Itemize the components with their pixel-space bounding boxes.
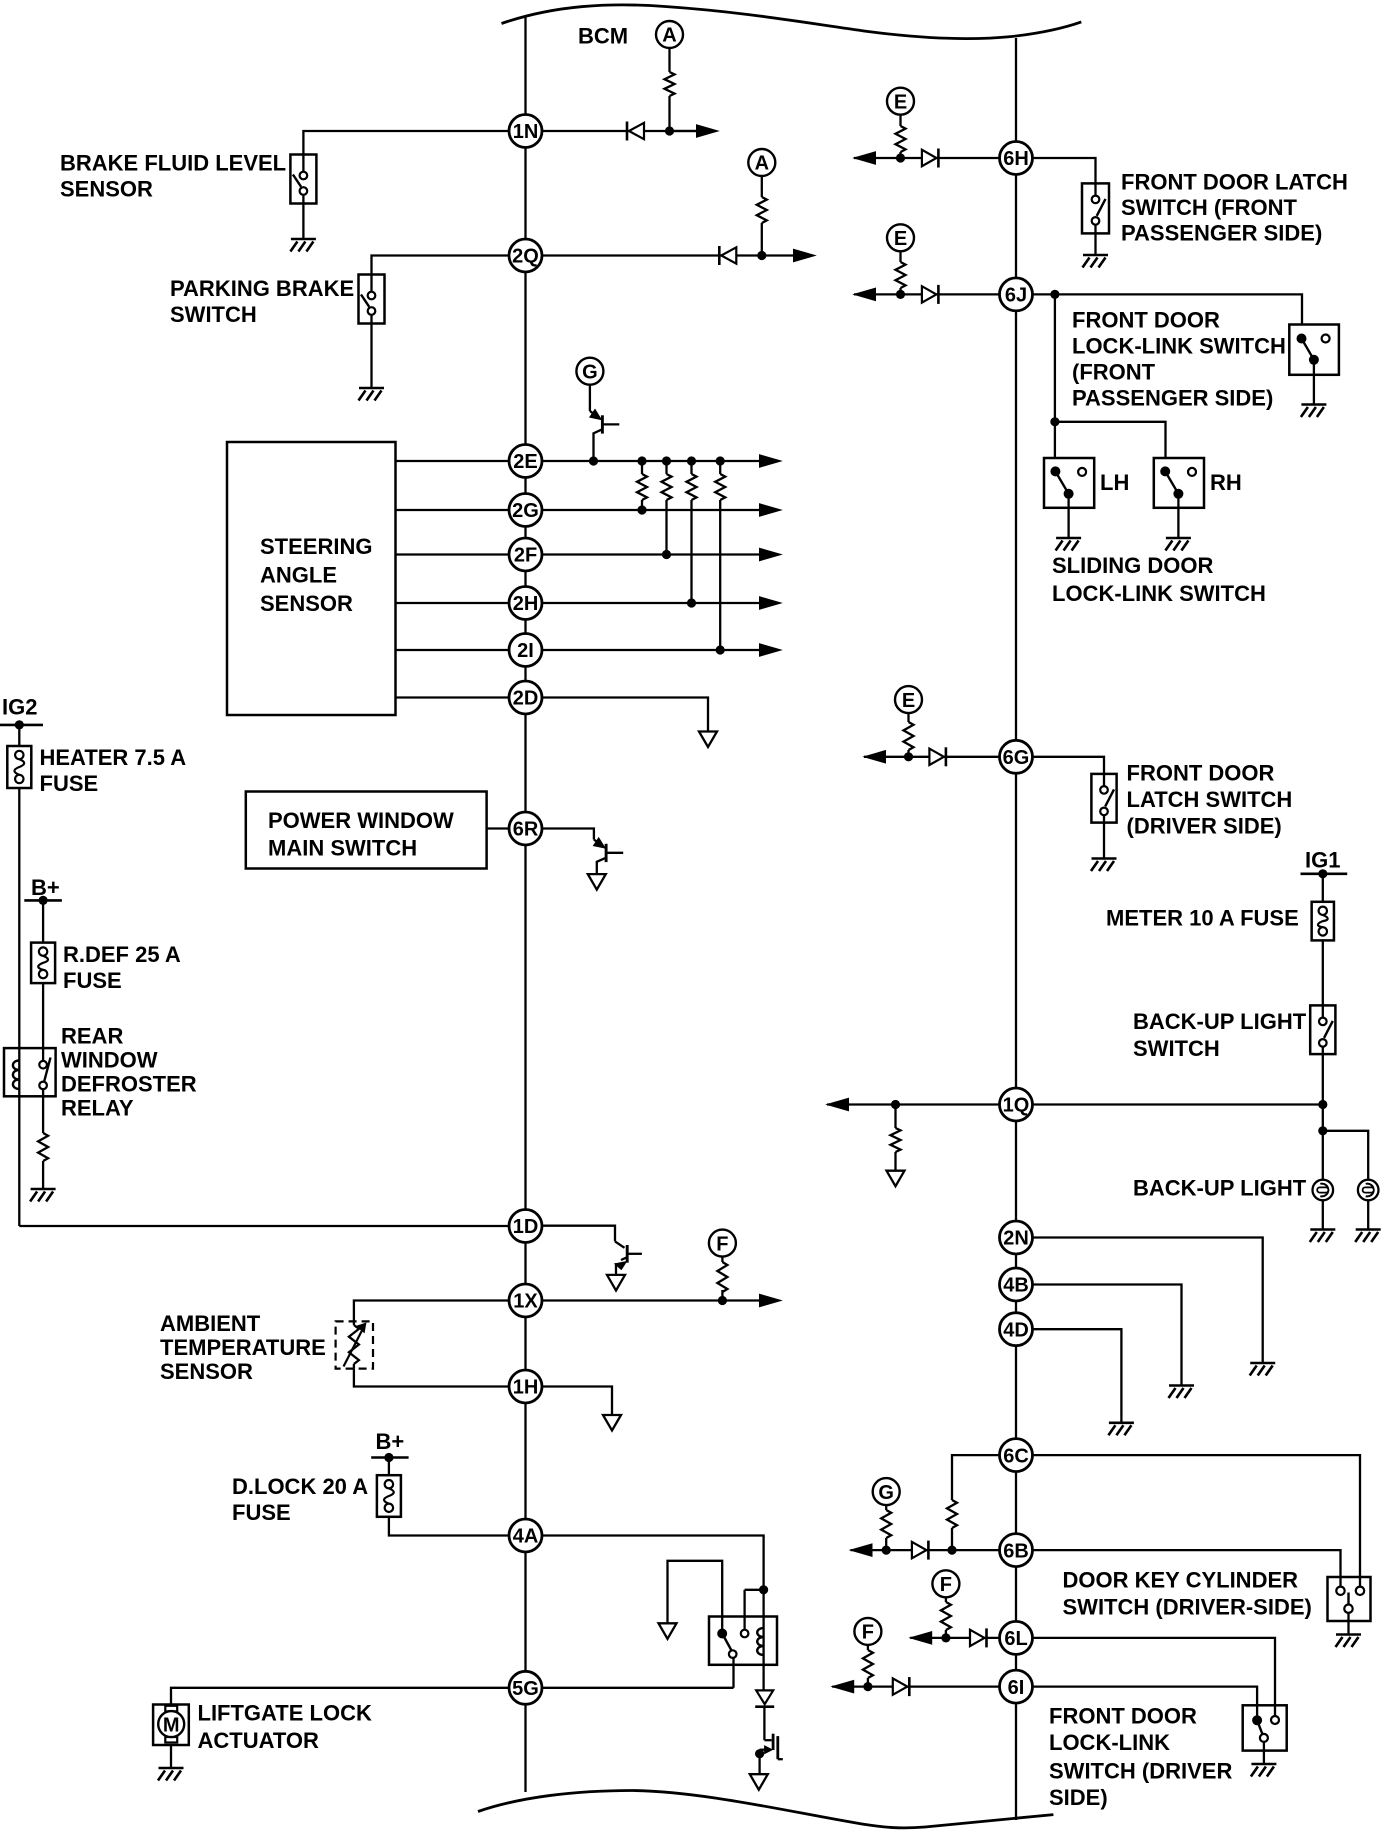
svg-text:REAR: REAR — [61, 1024, 123, 1049]
node on 6B row (6C resistor) — [947, 1546, 956, 1555]
node: Q-G collector on 2E row — [589, 456, 598, 465]
node: R4 top on 2E row — [716, 456, 725, 465]
steering angle sensor box — [227, 442, 396, 715]
svg-text:4B: 4B — [1003, 1275, 1029, 1297]
label FRONT DOOR LOCK-LINK SWITCH (FRONT PASSENGER SIDE) — [1072, 308, 1286, 411]
diode (flyback, pointing down) — [755, 1690, 774, 1706]
wire: 2N to ground — [1033, 1238, 1263, 1363]
relay switch lever (liftgate) — [717, 1629, 736, 1658]
BCM module boundary (bottom wavy line) — [478, 1791, 1053, 1828]
arrow output (6G row, pointing left) — [864, 751, 886, 763]
wire: relay switch to 5G row — [732, 1658, 734, 1688]
label FRONT DOOR LOCK-LINK SWITCH (DRIVER SIDE) — [1049, 1704, 1232, 1811]
connector E (circled, 6G) — [895, 686, 922, 713]
BCM connector pin 6R — [509, 812, 542, 845]
wire: long feed to 1D — [19, 1225, 509, 1227]
wire: sensor to 2E — [396, 460, 510, 462]
wire: E branch to 6J row — [899, 251, 901, 294]
wire: 6J to passenger lock-link switch — [1055, 294, 1302, 324]
fuse METER 10 A — [1312, 902, 1334, 941]
resistor (6C branch) — [947, 1500, 957, 1528]
wire: R.DEF fuse to defroster relay — [42, 983, 44, 1048]
wire: resistor to 6B row — [951, 1528, 953, 1550]
node: R2 top on 2E row — [662, 456, 671, 465]
transistor Q-FET (liftgate driver) — [755, 1734, 783, 1775]
svg-text:F: F — [862, 1622, 874, 1644]
wire: junction down to bulbs — [1322, 1105, 1324, 1180]
wire: sensor to 2I — [396, 649, 510, 651]
node on 6I row — [863, 1682, 872, 1691]
svg-text:FRONT DOOR: FRONT DOOR — [1072, 308, 1220, 333]
BCM connector pin 2H — [509, 587, 542, 620]
wire: E branch to 6G row — [907, 713, 909, 757]
BCM connector pin 6H — [1000, 142, 1033, 175]
transistor Q-G (output driver at 2E) — [590, 385, 620, 461]
svg-text:6I: 6I — [1008, 1677, 1025, 1699]
diode D-2Q (cathode left) — [719, 246, 736, 265]
label HEATER 7.5 A FUSE — [40, 745, 187, 796]
svg-text:B+: B+ — [31, 875, 60, 900]
ground (2N) — [1250, 1363, 1276, 1376]
svg-text:1X: 1X — [513, 1291, 538, 1313]
BCM connector pin 6C — [1000, 1439, 1033, 1472]
arrow output (2I row) — [760, 644, 782, 656]
BCM connector pin 6I — [1000, 1670, 1033, 1703]
svg-text:1H: 1H — [513, 1377, 539, 1399]
diode D-6J — [922, 285, 939, 304]
wire: 6J row right — [1033, 293, 1055, 295]
power terminal B+ (bar) — [24, 899, 62, 902]
wire: contact stub down — [743, 1590, 745, 1630]
svg-text:F: F — [940, 1574, 952, 1596]
node on IG1 bar — [1318, 869, 1327, 878]
connector F (circled, 6L) — [932, 1570, 959, 1597]
wire: A branch to 2Q row — [761, 176, 763, 256]
resistor R4 (steering ladder) — [715, 461, 725, 650]
svg-text:R.DEF 25 A: R.DEF 25 A — [63, 942, 181, 967]
svg-text:SWITCH (FRONT: SWITCH (FRONT — [1121, 195, 1298, 220]
svg-text:DOOR KEY CYLINDER: DOOR KEY CYLINDER — [1063, 1568, 1299, 1593]
svg-text:AMBIENT: AMBIENT — [160, 1311, 261, 1336]
svg-text:POWER WINDOW: POWER WINDOW — [268, 808, 454, 833]
node on 1X row (F branch) — [718, 1296, 727, 1305]
front door latch switch (driver side) — [1091, 774, 1116, 823]
liftgate relay box — [709, 1617, 777, 1665]
relay contact (normally-open terminal) — [741, 1630, 749, 1638]
wire: 6B row left — [851, 1549, 1000, 1551]
ground (front door latch switch passenger) — [1083, 255, 1109, 268]
resistor (A branch, 2Q) — [756, 197, 768, 223]
svg-text:DEFROSTER: DEFROSTER — [61, 1072, 197, 1097]
ground (LH switch) — [1056, 538, 1082, 551]
svg-text:G: G — [878, 1482, 894, 1504]
arrow output (2F row) — [760, 548, 782, 560]
svg-text:SENSOR: SENSOR — [160, 1359, 253, 1384]
wire: 6L right to driver lock-link switch — [1033, 1638, 1276, 1716]
label FRONT DOOR LATCH SWITCH (DRIVER SIDE) — [1127, 761, 1293, 839]
diode D-1N (cathode left) — [627, 122, 644, 141]
wire: actuator to ground — [170, 1745, 172, 1767]
fuse HEATER 7.5 A — [7, 746, 31, 788]
wire: 2E row — [542, 460, 760, 462]
arrow output (6J row, pointing left) — [854, 288, 876, 300]
node on IG2 bar — [15, 720, 24, 729]
fuse R.DEF 25 A — [31, 943, 55, 984]
power terminal B+ bar (D.LOCK) — [371, 1456, 408, 1459]
svg-text:SWITCH: SWITCH — [1133, 1036, 1220, 1061]
BCM connector pin 2I — [509, 634, 542, 667]
wire: sensor to 2F — [396, 553, 510, 555]
lamp back-up light (left bulb) — [1313, 1180, 1334, 1201]
wire: defroster switch to resistor — [42, 1096, 44, 1133]
ground (4D) — [1108, 1423, 1134, 1436]
svg-text:E: E — [902, 690, 915, 712]
ground (liftgate actuator) — [158, 1768, 184, 1781]
svg-text:IG2: IG2 — [2, 695, 37, 720]
wire: IG1 to meter fuse — [1322, 874, 1324, 902]
connector E (circled, 6J) — [887, 224, 914, 251]
BCM connector pin 2E — [509, 445, 542, 478]
wire: E branch to 6H row — [899, 115, 901, 158]
wire: latch switch to ground — [1094, 233, 1096, 254]
BCM connector pin 2N — [1000, 1221, 1033, 1254]
wire: 6I right to driver lock-link switch — [1033, 1687, 1258, 1721]
svg-text:WINDOW: WINDOW — [61, 1048, 158, 1073]
svg-text:2H: 2H — [513, 593, 539, 615]
node: bulb branch junction — [1318, 1126, 1327, 1135]
label STEERING ANGLE SENSOR — [260, 534, 372, 616]
ground (right bulb) — [1355, 1230, 1381, 1243]
arrow output (2E row) — [760, 455, 782, 467]
wire: 2Q row right segment — [542, 254, 794, 256]
wire: 6J row left (diode to bus) — [854, 293, 1000, 295]
diode D-6I — [893, 1677, 910, 1696]
wire: 2Q row to parking brake switch — [372, 256, 510, 275]
door key cylinder switch (driver-side) — [1328, 1577, 1371, 1634]
svg-text:B+: B+ — [376, 1429, 405, 1454]
node: LH/RH branch junction — [1050, 417, 1059, 426]
svg-text:SWITCH (DRIVER-SIDE): SWITCH (DRIVER-SIDE) — [1063, 1595, 1312, 1620]
svg-text:1D: 1D — [513, 1216, 539, 1238]
svg-text:HEATER 7.5 A: HEATER 7.5 A — [40, 745, 187, 770]
wire: 1N row to brake fluid sensor — [303, 131, 509, 155]
arrow output (6L row, pointing left) — [910, 1632, 932, 1644]
svg-text:LOCK-LINK SWITCH: LOCK-LINK SWITCH — [1072, 334, 1286, 359]
relay coil (defroster) — [13, 1048, 19, 1096]
power terminal IG1 (bar) — [1301, 872, 1348, 875]
wire: 6I row left — [832, 1685, 999, 1687]
wire: diode to FET — [763, 1707, 765, 1741]
svg-text:PARKING BRAKE: PARKING BRAKE — [170, 276, 354, 301]
svg-text:LH: LH — [1100, 470, 1129, 495]
svg-text:6L: 6L — [1004, 1628, 1027, 1650]
wire: 5G row — [542, 1687, 734, 1689]
wire: sensor to 1H — [354, 1369, 509, 1387]
connector G (circled) — [576, 358, 603, 385]
svg-text:E: E — [894, 91, 907, 113]
svg-text:E: E — [894, 228, 907, 250]
wire: 6C right to key cylinder switch — [1033, 1455, 1361, 1577]
svg-text:BACK-UP LIGHT: BACK-UP LIGHT — [1133, 1009, 1307, 1034]
svg-text:D.LOCK 20 A: D.LOCK 20 A — [232, 1474, 368, 1499]
wire: back-up light switch down to 1Q row — [1322, 1054, 1324, 1104]
BCM connector pin 1X — [509, 1284, 542, 1317]
node on 6B row (G branch) — [882, 1546, 891, 1555]
svg-text:BACK-UP LIGHT: BACK-UP LIGHT — [1133, 1176, 1307, 1201]
svg-text:2D: 2D — [513, 688, 539, 710]
wire: defroster coil down to 1D feed — [18, 1096, 20, 1226]
svg-text:5G: 5G — [512, 1678, 539, 1700]
connector F (circled, 6I) — [854, 1618, 881, 1645]
connector G (circled, 6B) — [873, 1478, 900, 1505]
ground (defroster) — [30, 1189, 55, 1202]
wire: 5G to liftgate actuator — [171, 1688, 509, 1705]
label BRAKE FLUID LEVEL SENSOR — [60, 151, 286, 202]
node: 1Q / back-up light junction — [1318, 1100, 1327, 1109]
connector F (circled, 1X) — [709, 1230, 736, 1257]
wire: BCM left bus (vertical) — [524, 17, 526, 1792]
svg-text:M: M — [163, 1714, 180, 1736]
svg-text:SENSOR: SENSOR — [60, 177, 153, 202]
BCM module boundary (top wavy line) — [502, 5, 1082, 39]
wire: LH switch to ground — [1067, 508, 1069, 537]
svg-text:ACTUATOR: ACTUATOR — [198, 1728, 320, 1753]
arrow output (2Q row) — [794, 249, 816, 261]
resistor (F branch, 6I) — [862, 1650, 874, 1678]
svg-text:STEERING: STEERING — [260, 534, 372, 559]
sliding door lock-link switch LH — [1044, 458, 1094, 508]
wire: sensor to 2H — [396, 602, 510, 604]
svg-text:ANGLE: ANGLE — [260, 563, 337, 588]
resistor (A branch, 1N) — [664, 72, 676, 96]
wire: 2G row — [542, 509, 760, 511]
wire: sensor to 2G — [396, 509, 510, 511]
resistor (E branch, 6J) — [895, 262, 907, 288]
wire: 1Q resistor branch — [894, 1105, 896, 1129]
wire: RH switch to ground — [1177, 508, 1179, 537]
back-up light switch — [1310, 1005, 1335, 1054]
arrow output (1Q row, pointing left) — [827, 1098, 849, 1110]
resistor R1 (steering ladder) — [637, 461, 647, 510]
svg-text:FRONT DOOR: FRONT DOOR — [1049, 1704, 1197, 1729]
resistor (E branch, 6G) — [903, 722, 915, 750]
label R.DEF 25 A FUSE — [63, 942, 181, 993]
label BACK-UP LIGHT SWITCH — [1133, 1009, 1307, 1061]
wire: branch to right bulb — [1323, 1131, 1368, 1180]
wire: resistor to ground arrow — [894, 1152, 896, 1171]
connector E (circled, 6H) — [887, 88, 914, 115]
svg-text:6B: 6B — [1003, 1540, 1029, 1562]
label D.LOCK 20 A FUSE — [232, 1474, 368, 1525]
arrow output (1N row) — [697, 125, 719, 137]
node on 6L row — [941, 1633, 950, 1642]
svg-text:2I: 2I — [517, 640, 534, 662]
BCM connector pin 4A — [509, 1519, 542, 1552]
svg-text:MAIN SWITCH: MAIN SWITCH — [268, 836, 417, 861]
svg-text:SIDE): SIDE) — [1049, 1785, 1108, 1810]
svg-text:PASSENGER SIDE): PASSENGER SIDE) — [1072, 386, 1273, 411]
svg-text:RELAY: RELAY — [61, 1096, 134, 1121]
svg-text:2E: 2E — [513, 451, 537, 473]
transistor Q-6R (input buffer) — [542, 829, 623, 875]
wire: 6G to driver latch switch — [1033, 757, 1105, 774]
svg-text:SLIDING DOOR: SLIDING DOOR — [1052, 553, 1213, 578]
sliding door lock-link switch RH — [1154, 458, 1204, 508]
wire: 6H to front door latch switch — [1033, 158, 1096, 183]
ground (driver lock-link) — [1251, 1764, 1277, 1777]
BCM connector pin 2G — [509, 494, 542, 527]
diode D-6B — [912, 1541, 929, 1560]
ground (4B) — [1169, 1386, 1195, 1399]
label LIFTGATE LOCK ACTUATOR — [198, 1701, 372, 1754]
wire: 6G row left (diode to bus) — [864, 756, 1000, 758]
svg-text:FRONT DOOR: FRONT DOOR — [1127, 761, 1275, 786]
svg-text:FUSE: FUSE — [63, 968, 122, 993]
svg-text:4D: 4D — [1003, 1319, 1029, 1341]
BCM connector pin 2D — [509, 681, 542, 714]
fuse D.LOCK 20 A — [377, 1475, 401, 1517]
svg-text:FUSE: FUSE — [40, 771, 99, 796]
parking brake switch — [359, 275, 385, 324]
arrow output (2G row) — [760, 504, 782, 516]
node: R1 top on 2E row — [637, 456, 646, 465]
resistor (E branch, 6H) — [895, 126, 907, 152]
label PARKING BRAKE SWITCH — [170, 276, 354, 327]
rear window defroster relay box — [4, 1048, 56, 1096]
wire: 1X to ambient temperature sensor — [354, 1301, 509, 1322]
svg-text:TEMPERATURE: TEMPERATURE — [160, 1335, 326, 1360]
wire: heater fuse down to defroster relay — [18, 788, 20, 1048]
ground (key cylinder switch) — [1336, 1635, 1362, 1648]
wire: 2F row — [542, 553, 760, 555]
svg-text:LOCK-LINK SWITCH: LOCK-LINK SWITCH — [1052, 581, 1266, 606]
wire: 6L row left — [910, 1637, 999, 1639]
svg-text:IG1: IG1 — [1305, 848, 1340, 873]
wire: G branch to 6B row — [885, 1505, 887, 1550]
svg-text:RH: RH — [1210, 470, 1242, 495]
arrow output (2H row) — [760, 597, 782, 609]
wire: relay contact feed — [745, 1589, 764, 1591]
svg-text:(DRIVER SIDE): (DRIVER SIDE) — [1127, 814, 1282, 839]
wire: branch to RH switch — [1055, 422, 1166, 458]
svg-text:BRAKE FLUID LEVEL: BRAKE FLUID LEVEL — [60, 151, 286, 176]
wire: 2D to ground arrow — [542, 698, 708, 732]
node on 6J row — [896, 290, 905, 299]
BCM connector pin 4B — [1000, 1268, 1033, 1301]
label SLIDING DOOR LOCK-LINK SWITCH — [1052, 553, 1266, 606]
svg-text:LOCK-LINK: LOCK-LINK — [1049, 1730, 1170, 1755]
wire: 1H right to ground arrow — [542, 1387, 612, 1416]
resistor R3 (steering ladder) — [687, 461, 697, 603]
ground arrow (1Q branch) — [887, 1171, 905, 1187]
wire: right bulb to ground — [1367, 1200, 1369, 1228]
svg-text:6H: 6H — [1003, 148, 1029, 170]
liftgate lock actuator (motor M) — [153, 1705, 189, 1746]
svg-text:FRONT DOOR LATCH: FRONT DOOR LATCH — [1121, 170, 1348, 195]
relay switch (defroster) — [39, 1048, 50, 1096]
svg-text:6G: 6G — [1003, 747, 1030, 769]
wire: meter fuse to back-up light switch — [1322, 940, 1324, 1005]
ground (left bulb) — [1310, 1230, 1336, 1243]
label DOOR KEY CYLINDER SWITCH (DRIVER-SIDE) — [1063, 1568, 1312, 1620]
svg-text:G: G — [582, 361, 598, 383]
node: R1 bottom junction — [637, 505, 646, 514]
svg-text:6C: 6C — [1003, 1445, 1029, 1467]
wire: D.LOCK fuse to 4A — [389, 1517, 509, 1536]
wire: A branch to 1N row — [668, 48, 670, 131]
node: R3 top on 2E row — [687, 456, 696, 465]
wire: power window switch to 6R — [487, 827, 509, 829]
svg-text:4A: 4A — [513, 1526, 539, 1548]
wire: 2I row — [542, 649, 760, 651]
ground arrow (relay common branch) — [659, 1623, 677, 1639]
svg-text:F: F — [716, 1233, 728, 1255]
ground (driver latch switch) — [1091, 859, 1117, 872]
relay coil (liftgate) — [757, 1628, 763, 1655]
svg-text:LIFTGATE LOCK: LIFTGATE LOCK — [198, 1701, 372, 1726]
svg-text:1N: 1N — [513, 121, 539, 143]
node on 6G row — [904, 752, 913, 761]
svg-text:FUSE: FUSE — [232, 1500, 291, 1525]
resistor (defroster sense) — [38, 1133, 48, 1161]
wire: BCM right bus (vertical) — [1015, 38, 1017, 1820]
wire: ground-arrow branch for relay common — [668, 1561, 723, 1634]
front door lock-link switch (driver side) — [1243, 1705, 1287, 1750]
wire: driver latch to ground — [1103, 823, 1105, 858]
wire: relay coil down to diode — [762, 1655, 764, 1690]
node on 6H row — [896, 153, 905, 162]
lamp back-up light (right bulb) — [1358, 1180, 1379, 1201]
wire: 6B right to key cylinder switch — [1033, 1550, 1341, 1577]
BCM connector pin 5G — [509, 1671, 542, 1704]
svg-text:BCM: BCM — [578, 24, 628, 49]
ground arrow (2D) — [699, 732, 717, 748]
svg-text:A: A — [662, 25, 676, 47]
power window main switch box — [246, 792, 487, 869]
node on 2Q row (junction dot) — [757, 251, 766, 260]
wire: 2H row — [542, 602, 760, 604]
node: R2 bottom junction — [662, 550, 671, 559]
ground arrow (FET source) — [750, 1774, 768, 1790]
transistor Q-1D — [542, 1226, 642, 1275]
ground (passenger lock-link) — [1301, 405, 1327, 418]
node: R4 bottom junction — [716, 645, 725, 654]
BCM connector pin 4D — [1000, 1313, 1033, 1346]
node: R3 bottom junction — [687, 598, 696, 607]
svg-text:PASSENGER SIDE): PASSENGER SIDE) — [1121, 221, 1322, 246]
resistor (1Q branch) — [891, 1128, 901, 1152]
BCM connector pin 6B — [1000, 1534, 1033, 1567]
svg-text:A: A — [755, 153, 769, 175]
wire: resistor to ground — [42, 1161, 44, 1188]
BCM connector pin 6L — [1000, 1621, 1033, 1654]
wire: 4A row right — [542, 1536, 764, 1629]
svg-text:2F: 2F — [514, 545, 537, 567]
wire: 1Q row right — [1033, 1103, 1323, 1105]
BCM connector pin 1D — [509, 1210, 542, 1243]
BCM connector pin 6G — [1000, 740, 1033, 773]
wire: 4B to ground — [1033, 1285, 1182, 1385]
BCM connector pin 1N — [509, 115, 542, 148]
wire: F branch to 6L row — [945, 1597, 947, 1638]
svg-text:6R: 6R — [513, 819, 539, 841]
diode D-6L — [970, 1628, 987, 1647]
arrow output (6I row, pointing left) — [832, 1680, 854, 1692]
connector A (circled, second) — [748, 149, 775, 176]
wire: sensor to 2D — [396, 696, 510, 698]
resistor (G branch, 6B) — [880, 1510, 892, 1538]
ground arrow (1D transistor) — [607, 1275, 625, 1291]
